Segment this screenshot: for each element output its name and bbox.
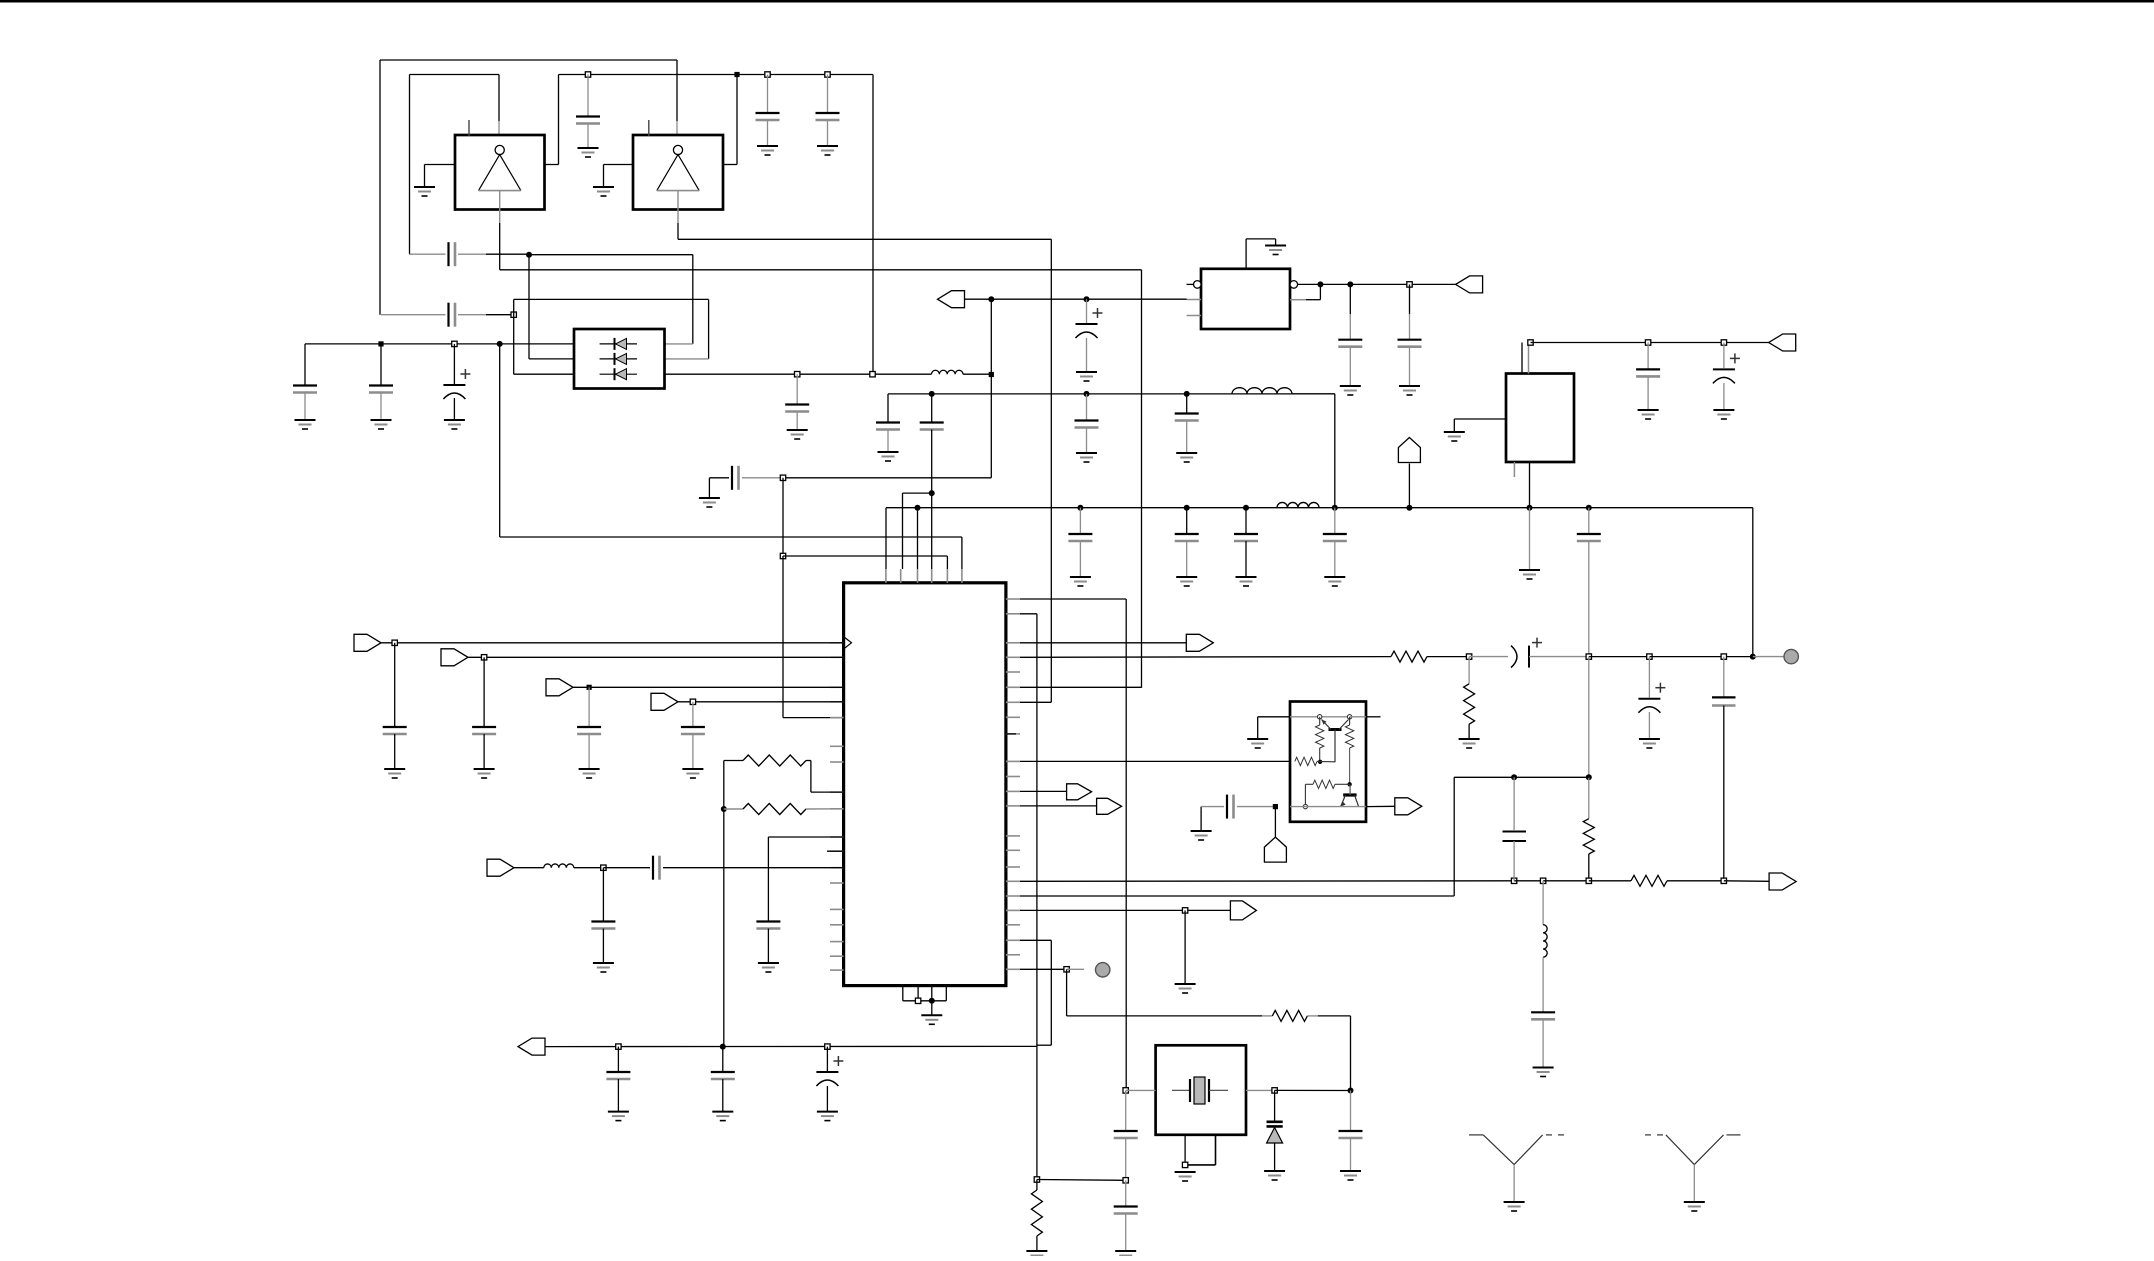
- wire: [304, 393, 306, 421]
- inverter U2 bubble: [673, 145, 682, 154]
- wire: [529, 358, 574, 360]
- inverter U1 triangle: [479, 155, 521, 191]
- wire: [1020, 598, 1126, 600]
- wire: [931, 1001, 933, 1016]
- pin stub: [1290, 299, 1306, 301]
- pin stub: [830, 717, 844, 719]
- wire: [425, 164, 456, 166]
- ground C24: [1713, 409, 1734, 411]
- pin stub: [830, 761, 844, 763]
- wire net P: [545, 1045, 1037, 1047]
- pin stub: [1006, 939, 1020, 941]
- wire: [409, 75, 411, 255]
- capacitor C32 polarized: [1532, 642, 1542, 644]
- pin stub: [1006, 924, 1020, 926]
- wire: [767, 929, 769, 964]
- wire: [1079, 508, 1081, 534]
- diode D1a cathode: [614, 338, 616, 350]
- wire: [961, 537, 963, 569]
- junction: [1184, 505, 1190, 511]
- junction: [780, 553, 785, 558]
- junction: [1721, 654, 1726, 659]
- resistor R3: [1391, 651, 1427, 662]
- ground C9: [787, 429, 808, 431]
- ground U3: [1265, 245, 1286, 247]
- wire: [381, 314, 446, 316]
- pin stub: [1187, 299, 1201, 301]
- connector flag J2: [1398, 438, 1420, 463]
- transistor box Q1Q2: [1290, 702, 1366, 822]
- junction: [1586, 774, 1592, 780]
- ground: [1175, 983, 1196, 985]
- capacitor C7: [369, 384, 393, 386]
- ground U1: [414, 186, 435, 188]
- wire: [1409, 314, 1411, 340]
- wire: [917, 508, 919, 569]
- diode D1c lead: [600, 373, 637, 375]
- wire: [678, 701, 844, 703]
- wire: [1186, 541, 1188, 577]
- wire: [1186, 298, 1188, 300]
- capacitor C37 polarized: [833, 1060, 843, 1062]
- capacitor C43: [1712, 697, 1736, 705]
- wire: [826, 1047, 828, 1071]
- ground C41: [1533, 1067, 1554, 1069]
- pin stub: [1006, 671, 1020, 673]
- junction: [587, 685, 592, 690]
- wire: [1125, 1138, 1127, 1180]
- wire: [1453, 419, 1455, 432]
- junction: [1540, 878, 1545, 883]
- wire: [1184, 1135, 1186, 1165]
- wire: [1588, 508, 1590, 534]
- wire: [1723, 343, 1725, 369]
- wire: [1350, 716, 1366, 718]
- ground C23: [1638, 409, 1659, 411]
- capacitor C11: [731, 466, 733, 490]
- wire: [902, 493, 904, 569]
- wire: [1020, 790, 1067, 792]
- wire: [1319, 717, 1321, 725]
- ground C26: [474, 768, 495, 770]
- wire: [617, 1079, 619, 1112]
- wire: [1647, 376, 1649, 410]
- wire: [617, 1047, 619, 1072]
- capacitor C5: [447, 303, 449, 327]
- wire U1 output: [499, 210, 501, 224]
- wire: [1258, 716, 1290, 718]
- IC U4: [1506, 374, 1574, 463]
- pin stub: [885, 569, 887, 583]
- wire: [676, 121, 678, 136]
- pin stub: [830, 836, 844, 838]
- wire: [1724, 880, 1769, 883]
- wire: [1454, 776, 1589, 778]
- wire: [1245, 508, 1247, 534]
- inverter U2 triangle: [657, 155, 699, 191]
- ground C33: [1639, 738, 1660, 740]
- junction: [1182, 1162, 1187, 1167]
- wire: [587, 124, 589, 149]
- wire: [1649, 656, 1752, 658]
- capacitor C1: [576, 115, 600, 117]
- connector flag J15: [1264, 837, 1286, 862]
- wire: [513, 299, 515, 374]
- wire: [1319, 284, 1321, 299]
- connector flag J5: [354, 634, 381, 651]
- wire: [1513, 777, 1515, 830]
- terminal TP1: [1784, 649, 1798, 663]
- node: [1347, 715, 1351, 719]
- wire: [1125, 1090, 1127, 1131]
- pin NC U1: [468, 120, 470, 136]
- wire: [602, 868, 604, 921]
- wire: [1349, 748, 1351, 784]
- wire: [1036, 614, 1038, 1180]
- wire: [692, 734, 694, 769]
- wire: [796, 412, 798, 431]
- resistor R11: [1313, 780, 1335, 788]
- wire: [1349, 347, 1351, 386]
- ground C19: [1324, 576, 1345, 578]
- junction: [720, 1044, 726, 1050]
- wire: [872, 75, 874, 375]
- junction: [601, 865, 606, 870]
- junction: [511, 312, 516, 317]
- capacitor C20: [1577, 533, 1601, 535]
- capacitor C35: [1226, 795, 1228, 819]
- junction: [1272, 1088, 1277, 1093]
- capacitor C25: [383, 726, 407, 728]
- diode D1c: [616, 369, 627, 380]
- ground: [1191, 830, 1212, 832]
- wire: [588, 687, 590, 727]
- wire: [573, 686, 844, 688]
- junction: [1347, 281, 1353, 287]
- pin stub: [1006, 716, 1020, 718]
- wire: [931, 394, 933, 422]
- junction: [929, 490, 935, 496]
- junction: [765, 72, 770, 77]
- junction: [526, 252, 532, 258]
- wire: [1141, 270, 1143, 688]
- wire net I: [1531, 342, 1769, 344]
- junction: [825, 72, 830, 77]
- wire: [458, 253, 486, 255]
- pin stub: [931, 569, 933, 583]
- wire: [1648, 657, 1650, 698]
- ground C14: [1076, 452, 1097, 454]
- wire: [782, 478, 784, 556]
- wire: [827, 120, 829, 146]
- wire: [587, 75, 589, 117]
- wire: [1514, 880, 1543, 882]
- ground C17: [1176, 576, 1197, 578]
- ground C22: [1399, 385, 1420, 387]
- wire: [1200, 809, 1202, 831]
- junction: [1182, 908, 1187, 913]
- wire: [558, 75, 560, 165]
- wire: [709, 477, 729, 479]
- junction: [1647, 654, 1652, 659]
- wire: [498, 121, 500, 136]
- wire: [394, 643, 396, 727]
- capacitor C24 polarized: [1730, 357, 1740, 359]
- wire: [574, 867, 604, 869]
- wire: [1307, 1015, 1318, 1017]
- wire: [1125, 1214, 1127, 1252]
- junction: [1466, 654, 1471, 659]
- transistor Q2: [1341, 785, 1359, 807]
- wire: [1262, 1015, 1272, 1017]
- wire net E: [991, 298, 1186, 300]
- wire: [1542, 1019, 1544, 1067]
- wire: [1588, 541, 1590, 657]
- wire: [722, 1047, 724, 1072]
- wire: [1317, 760, 1335, 762]
- wire: [1086, 338, 1088, 372]
- wire: [1306, 299, 1320, 301]
- inductor L5: [1543, 925, 1547, 958]
- junction: [1084, 391, 1090, 397]
- capacitor C26: [472, 726, 496, 728]
- wire: [380, 393, 382, 421]
- ground C28: [682, 768, 703, 770]
- capacitor C15: [1175, 412, 1199, 414]
- wire: [1079, 541, 1081, 577]
- inverter U1 output lead: [499, 191, 501, 210]
- wire: [826, 1086, 828, 1112]
- junction: [780, 475, 785, 480]
- wire: [768, 836, 843, 838]
- capacitor C42: [711, 1071, 735, 1073]
- pin stub: [1006, 598, 1020, 600]
- wire net Q: [1037, 1179, 1126, 1182]
- ground: [1247, 738, 1268, 740]
- ground R4: [1459, 738, 1480, 740]
- wire: [1723, 383, 1725, 410]
- capacitor C14: [1075, 419, 1099, 421]
- wire: [692, 702, 694, 727]
- junction: [1586, 505, 1592, 511]
- wire: [1186, 421, 1188, 454]
- wire: [1125, 1180, 1127, 1206]
- wire: [1274, 807, 1276, 838]
- wire: [486, 253, 529, 255]
- capacitor C36: [606, 1071, 630, 1073]
- junction: [1243, 505, 1249, 511]
- wire: [602, 929, 604, 964]
- wire: [1349, 717, 1351, 725]
- wire: [498, 75, 500, 122]
- pin stub: [830, 941, 844, 943]
- junction: [1317, 281, 1323, 287]
- pin stub: [1006, 642, 1020, 644]
- ground C1: [578, 147, 599, 149]
- inverter U2: [633, 135, 723, 210]
- crystal box Y1: [1156, 1045, 1246, 1135]
- junction: [1528, 340, 1533, 345]
- wire: [1201, 806, 1224, 808]
- connector flag J16: [1395, 798, 1422, 815]
- wire: [806, 808, 844, 810]
- wire: [1020, 968, 1067, 970]
- junction: [1586, 878, 1591, 883]
- wire net G: [886, 507, 1753, 509]
- inverter U2 output lead: [677, 191, 679, 210]
- wire net N: [1020, 909, 1230, 911]
- wire: [603, 867, 650, 869]
- wire: [1667, 880, 1724, 882]
- wire net J: [1020, 656, 1391, 659]
- wire: [1275, 1089, 1351, 1091]
- pin stub: [830, 745, 844, 747]
- wire: [1290, 806, 1366, 808]
- pin stub: [961, 569, 963, 583]
- wire: [1125, 599, 1127, 1090]
- resistor R4: [1464, 684, 1475, 724]
- wire: [603, 165, 605, 188]
- wire: [1334, 508, 1336, 534]
- wire: [1752, 508, 1754, 657]
- junction: [795, 372, 800, 377]
- crystal X1: [1172, 1077, 1228, 1104]
- pin stub: [945, 986, 947, 1001]
- wire: [1468, 724, 1470, 739]
- diode D1c cathode: [614, 368, 616, 380]
- resistor R9: [1345, 725, 1353, 748]
- capacitor C6: [293, 384, 317, 386]
- ground C40: [1340, 1170, 1361, 1172]
- transistor Q1: [1322, 720, 1349, 763]
- inductor L4: [544, 864, 574, 868]
- wire: [1185, 1164, 1215, 1166]
- ground C16: [1070, 576, 1091, 578]
- junction: [1077, 505, 1083, 511]
- zener D2: [1267, 1122, 1283, 1171]
- wire: [1589, 880, 1631, 882]
- wire: [379, 60, 381, 315]
- junction: [1347, 782, 1351, 786]
- wire: [1020, 939, 1051, 941]
- pin stub: [1006, 733, 1016, 735]
- connector flag J13: [1769, 873, 1796, 890]
- connector flag J3: [1456, 276, 1483, 293]
- junction: [1123, 1088, 1128, 1093]
- ground R12: [1026, 1250, 1047, 1252]
- wire: [453, 398, 455, 420]
- ground C12: [878, 451, 899, 453]
- capacitor C29: [591, 920, 615, 922]
- ground C21: [1340, 385, 1361, 387]
- resistor R2: [743, 804, 806, 815]
- wire net M: [1020, 895, 1454, 897]
- junction: [915, 998, 920, 1003]
- capacitor C22: [1398, 339, 1422, 341]
- wire: [1245, 541, 1247, 577]
- ground U4: [1444, 431, 1465, 433]
- ground C2: [757, 145, 778, 147]
- ground D2: [1264, 1170, 1285, 1172]
- wire: [1036, 1180, 1038, 1191]
- ground C27: [579, 768, 600, 770]
- resistor R5: [1583, 819, 1594, 854]
- ground C15: [1176, 452, 1197, 454]
- resistor R6: [1631, 875, 1667, 886]
- wire: [1086, 394, 1088, 420]
- ground C36: [608, 1111, 629, 1113]
- ground C6: [295, 419, 316, 421]
- wire: [458, 314, 486, 316]
- connector flag J10: [1186, 634, 1213, 651]
- wire: [1350, 1016, 1352, 1091]
- wire: [946, 556, 948, 569]
- resistor R10: [1295, 757, 1317, 765]
- wire: [796, 374, 798, 404]
- wire: [1290, 716, 1350, 718]
- wire: [676, 60, 678, 121]
- junction: [1511, 878, 1516, 883]
- junction: [825, 1044, 830, 1049]
- wire: [1648, 712, 1650, 739]
- wire: [742, 477, 783, 479]
- pin stub: [830, 656, 844, 658]
- terminal TP2: [1096, 963, 1110, 977]
- wire: [1409, 284, 1411, 314]
- wire: [1588, 854, 1590, 881]
- capacitor C40: [1339, 1130, 1363, 1132]
- wire: [1020, 613, 1037, 615]
- wire: [1588, 777, 1590, 818]
- inductor L2: [1232, 388, 1292, 394]
- wire net H: [1298, 283, 1456, 285]
- junction: [1273, 804, 1278, 809]
- wire: [453, 344, 455, 384]
- capacitor C12: [876, 421, 900, 423]
- pin stub: [830, 701, 844, 703]
- connector flag J12: [1097, 798, 1122, 814]
- wire: [1050, 940, 1052, 1045]
- wire: [677, 223, 679, 239]
- ground C8: [444, 419, 465, 421]
- pin stub: [830, 867, 844, 869]
- wire: [990, 375, 992, 478]
- wire: [767, 120, 769, 146]
- ground C10: [1076, 371, 1097, 373]
- ground U5: [921, 1014, 942, 1016]
- junction: [989, 372, 994, 377]
- capacitor C21: [1338, 339, 1362, 341]
- wire: [514, 867, 544, 869]
- wire: [1334, 541, 1336, 577]
- junction: [1750, 654, 1756, 660]
- junction: [1064, 967, 1069, 972]
- junction: [1407, 282, 1412, 287]
- pin stub: [830, 969, 844, 971]
- wire: [1020, 805, 1097, 807]
- node: [1303, 804, 1307, 808]
- wire: [722, 1079, 724, 1112]
- capacitor C4: [447, 242, 449, 266]
- pin stub: [830, 924, 844, 926]
- wire net K: [1020, 760, 1295, 762]
- pin bubble: [1290, 281, 1298, 289]
- wire: [528, 255, 530, 359]
- pin stub: [827, 850, 844, 852]
- pin stub: [1006, 656, 1020, 658]
- capacitor C3: [816, 112, 840, 114]
- wire: [724, 808, 743, 810]
